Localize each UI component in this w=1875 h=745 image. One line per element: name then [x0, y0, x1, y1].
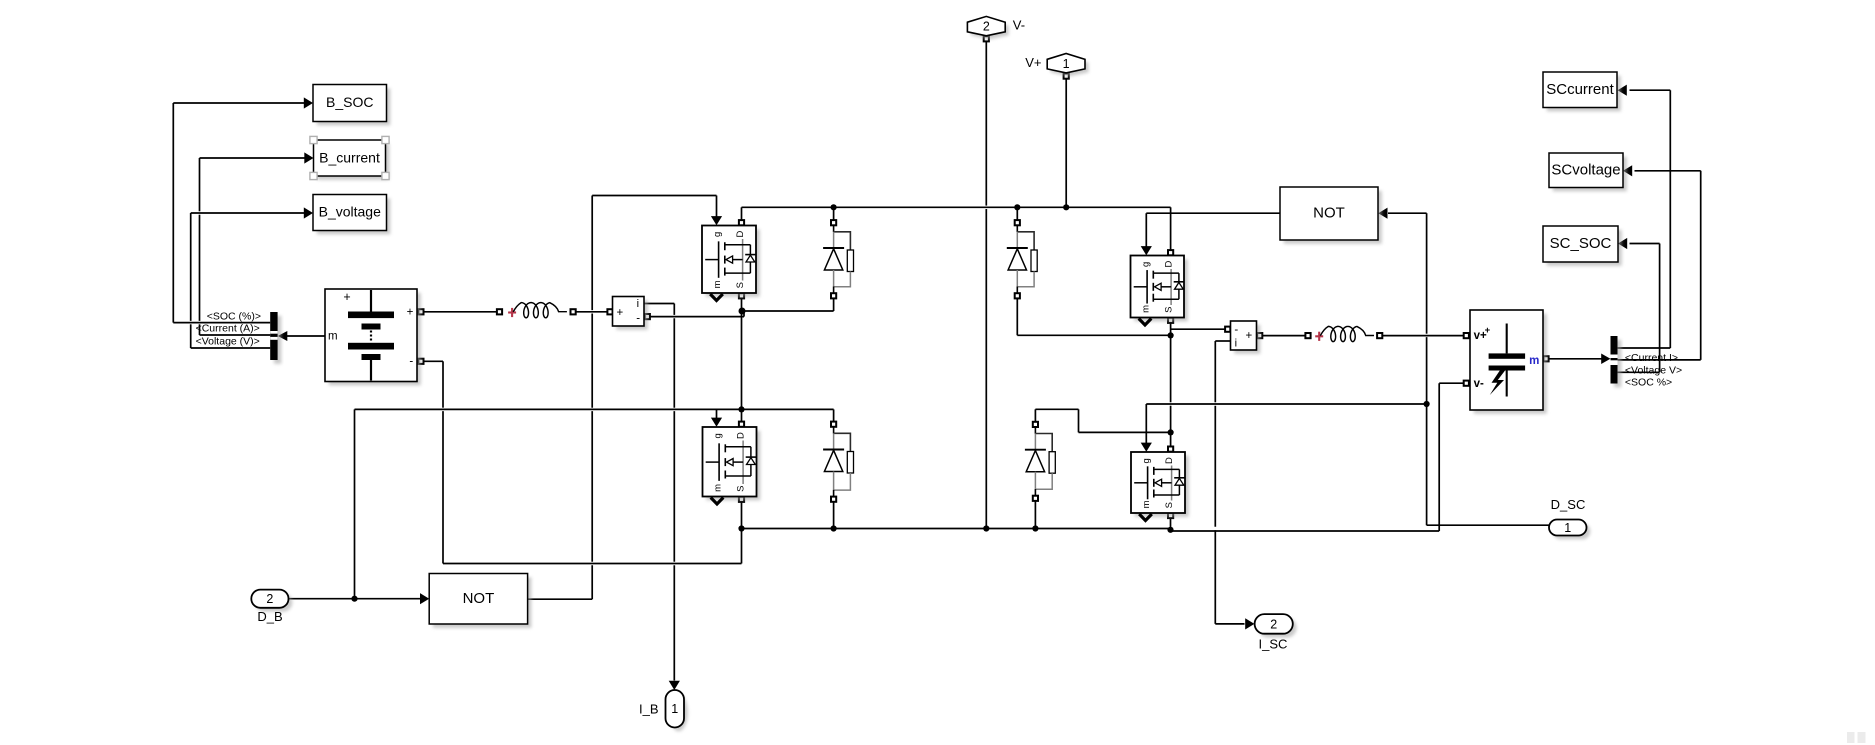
port square inductor L2 right — [1377, 333, 1382, 338]
wire D_B inport to NOT2 input — [288, 593, 429, 604]
supercapacitor block — [1470, 310, 1547, 414]
svg-text:m: m — [1529, 355, 1539, 367]
svg-text:<Voltage V>: <Voltage V> — [1625, 364, 1682, 376]
wire DC rail to diode D1 top — [833, 207, 835, 220]
junction dot diode D4 bottom rail — [1032, 525, 1038, 531]
svg-text:B_SOC: B_SOC — [326, 94, 373, 110]
wire bus selector2 port3 to SC_SOC — [1618, 238, 1660, 372]
wire inductor L2 to supercap v+ — [1382, 335, 1464, 337]
diode D4 with snubber — [1025, 427, 1055, 495]
wire MOSFET Q2 S to bottom rail — [741, 499, 743, 563]
port square sensor2 - — [1225, 327, 1230, 332]
port square diode D1 bottom — [831, 293, 836, 298]
inductor L1 with red polarity mark — [508, 303, 567, 318]
logic block NOT2 — [429, 574, 531, 628]
port square supercap m — [1543, 356, 1548, 361]
wire MOSFET Q4 S to bottom rail — [1170, 518, 1172, 531]
port square Q2 D — [739, 422, 744, 427]
port square inductor L1 right — [571, 309, 576, 314]
wire current sensor2 + to inductor L2 — [1262, 335, 1305, 337]
port square inductor L2 left — [1305, 333, 1310, 338]
svg-text:g: g — [1141, 262, 1152, 267]
junction dot Q4 S bottom rail — [1167, 527, 1173, 533]
junction dot diode D3 top on DC rail — [1014, 204, 1020, 210]
svg-text:m: m — [713, 484, 724, 492]
svg-text:S: S — [1164, 307, 1175, 313]
junction dot diode D1 top on DC rail — [831, 204, 837, 210]
svg-text:<Current (A)>: <Current (A)> — [196, 323, 260, 335]
wire B_SOC from bus selector port1 — [173, 97, 313, 322]
wire NOT2 output up to MOSFET Q1 gate — [528, 196, 722, 600]
goto block B_current (selected) — [310, 136, 389, 179]
svg-text:D_SC: D_SC — [1551, 497, 1586, 512]
svg-text:D: D — [1164, 457, 1175, 464]
svg-text:g: g — [1141, 458, 1152, 463]
diode D2 with snubber — [823, 427, 853, 496]
port square inductor L1 left — [497, 309, 502, 314]
current sensor I1 — [613, 297, 648, 330]
wire inductor L1 to current sensor + — [576, 311, 608, 313]
current sensor I2 — [1231, 321, 1261, 354]
wire diode D4 bottom to bottom rail — [1034, 501, 1036, 529]
port tag V+ shadow — [1051, 57, 1089, 76]
svg-text:g: g — [712, 232, 723, 237]
port square V- tag — [984, 36, 989, 41]
port square Q4 D — [1168, 447, 1173, 452]
port square battery + — [418, 309, 423, 314]
svg-text:2: 2 — [1270, 617, 1277, 631]
bus selector 1 — [270, 312, 281, 364]
port square supercap v+ — [1464, 333, 1469, 338]
wire supercap m output to bus selector2 — [1548, 354, 1610, 365]
svg-text:<Current I>: <Current I> — [1625, 352, 1678, 364]
MOSFET Q3 — [1131, 256, 1188, 326]
junction dot Q3 S node — [1168, 332, 1174, 338]
svg-text:S: S — [735, 282, 746, 288]
junction dot on D_B wire — [351, 596, 357, 602]
svg-text:1: 1 — [1063, 57, 1070, 71]
svg-text:<SOC (%)>: <SOC (%)> — [207, 311, 261, 323]
MOSFET Q2 — [703, 427, 761, 504]
port square supercap v- — [1464, 381, 1469, 386]
wire diode D4 top to Q4 D node — [1035, 409, 1170, 432]
wire switching node to diode D1 bottom — [742, 298, 834, 311]
svg-text:D: D — [736, 432, 747, 439]
svg-text:-: - — [1234, 324, 1238, 336]
svg-text:D: D — [735, 231, 746, 238]
port square Q1 S — [739, 293, 744, 298]
svg-text:D_B: D_B — [257, 609, 282, 624]
inport D_B — [251, 590, 292, 612]
wire diode D3 bottom to Q3 S node — [1017, 299, 1170, 336]
svg-text:S: S — [736, 486, 747, 492]
port square Q4 S — [1168, 513, 1173, 518]
svg-text:m: m — [1141, 305, 1152, 313]
port square diode D2 bottom — [831, 497, 836, 502]
wire current sensor i output to I_B outport — [644, 304, 680, 691]
port square sensor1 + — [607, 309, 612, 314]
goto block B_SOC — [313, 85, 390, 126]
svg-text:2: 2 — [983, 20, 990, 34]
svg-text:m: m — [328, 331, 338, 343]
goto block SCvoltage — [1549, 153, 1627, 191]
wire MOSFET Q1 S down through node to MOSFET Q2 D — [741, 299, 743, 422]
wire battery m output to bus selector — [278, 331, 325, 341]
outport I_B — [666, 690, 688, 731]
junction dot Q2 S bottom rail — [738, 525, 744, 531]
svg-text:<SOC %>: <SOC %> — [1625, 377, 1672, 389]
wire bus selector2 port1 to SCcurrent — [1618, 85, 1671, 348]
bus selector 2 — [1611, 336, 1622, 387]
junction dot V- bottom rail — [983, 525, 989, 531]
port tag V+ — [1047, 54, 1085, 73]
svg-text:NOT: NOT — [463, 590, 495, 607]
svg-text:m: m — [712, 280, 723, 288]
wire battery - down and to bottom rail junction — [424, 361, 742, 563]
wire V+ tag down to DC rail — [1065, 79, 1067, 208]
port square Q1 D — [739, 220, 744, 225]
svg-text:m: m — [1141, 500, 1152, 508]
MOSFET Q4 — [1131, 452, 1189, 521]
wire NOT1 output to MOSFET Q3 gate — [1141, 213, 1280, 255]
port square sensor1 - — [645, 314, 650, 319]
svg-text:i: i — [637, 298, 639, 310]
inport D_SC — [1549, 520, 1590, 540]
node junction dot below Q1 S — [739, 308, 746, 315]
wire B_current from bus selector port2 — [200, 152, 314, 335]
svg-text:V-: V- — [1013, 18, 1025, 33]
svg-text:B_voltage: B_voltage — [319, 203, 381, 219]
svg-text:1: 1 — [1564, 521, 1571, 535]
svg-text:-: - — [636, 313, 640, 325]
svg-text:SCvoltage: SCvoltage — [1551, 161, 1620, 178]
svg-text:+: + — [1246, 330, 1253, 342]
port square V+ tag — [1064, 74, 1069, 79]
svg-text:v-: v- — [1474, 378, 1484, 390]
outport I_SC — [1255, 614, 1297, 637]
port square diode D2 top — [831, 422, 836, 427]
junction dot diode D2 bottom rail — [831, 525, 837, 531]
port tag V- — [967, 16, 1005, 35]
svg-text:I_B: I_B — [639, 702, 659, 717]
inductor L2 with red polarity mark — [1315, 326, 1374, 341]
goto block B_voltage — [313, 195, 390, 235]
battery block — [325, 289, 421, 385]
svg-text:D: D — [1164, 261, 1175, 268]
wire current sensor - to switching node junction — [650, 311, 744, 317]
port square diode D4 top — [1033, 422, 1038, 427]
wire gate net to NOT1 input, MOSFET Q4 gate and D_SC — [1141, 208, 1549, 526]
goto block SC_SOC — [1543, 226, 1622, 266]
svg-text:SC_SOC: SC_SOC — [1550, 235, 1612, 252]
svg-text:B_current: B_current — [319, 149, 380, 165]
junction dot V+ on DC rail — [1063, 204, 1069, 210]
diode D3 with snubber — [1007, 226, 1037, 294]
wire current sensor2 i output to I_SC outport — [1215, 341, 1254, 630]
svg-text:SCcurrent: SCcurrent — [1546, 81, 1614, 98]
junction dot gate net — [1424, 401, 1430, 407]
svg-text:g: g — [713, 433, 724, 438]
node junction dot on gate rail at Q2 D — [738, 406, 744, 412]
port tag V- shadow — [971, 20, 1009, 39]
port square diode D3 bottom — [1015, 293, 1020, 298]
wire diode D2 bottom to bottom rail — [833, 499, 835, 528]
svg-text:S: S — [1164, 502, 1175, 508]
svg-text:I_SC: I_SC — [1259, 637, 1288, 652]
wire D_B gate rail to MOSFET Q2 gate and diode D2 top — [355, 409, 834, 598]
port square diode D4 bottom — [1033, 496, 1038, 501]
goto block SCcurrent — [1543, 72, 1621, 111]
svg-text:2: 2 — [266, 592, 273, 606]
wire V- tag down to bottom rail — [985, 42, 987, 206]
svg-text:V+: V+ — [1025, 55, 1041, 70]
svg-text:-: - — [409, 356, 413, 368]
faint watermark — [1847, 732, 1866, 743]
MOSFET Q1 — [702, 226, 760, 301]
wire B_voltage from bus selector port3 — [191, 207, 313, 348]
wire DC rail to diode D3 top — [1016, 207, 1018, 220]
wire battery + to inductor L1 — [424, 311, 497, 313]
svg-text:+: + — [343, 290, 350, 304]
port square diode D1 top — [831, 220, 836, 225]
svg-text:+: + — [407, 307, 414, 319]
port square Q3 S — [1168, 318, 1173, 323]
bottom DC rail — [742, 383, 1465, 531]
svg-text:1: 1 — [671, 702, 678, 716]
port square diode D3 top — [1015, 220, 1020, 225]
wire Q3 S node to current sensor2 - — [1171, 328, 1225, 330]
wire MOSFET Q3 S down to MOSFET Q4 D — [1170, 323, 1172, 402]
diode D1 with snubber — [823, 226, 853, 294]
svg-text:i: i — [1235, 338, 1237, 350]
port square Q3 D — [1168, 250, 1173, 255]
wire bus selector2 port2 to SCvoltage — [1618, 165, 1701, 360]
svg-text:+: + — [1485, 325, 1491, 336]
port square sensor2 + — [1257, 333, 1262, 338]
svg-text:NOT: NOT — [1313, 205, 1345, 222]
wire top DC rail from Q1 D to Q3 D — [742, 207, 1171, 250]
logic block NOT1 — [1280, 187, 1382, 244]
port square Q2 S — [739, 497, 744, 502]
junction dot Q4 D node — [1168, 429, 1174, 435]
svg-text:+: + — [617, 307, 624, 319]
port square battery - — [418, 359, 423, 364]
svg-text:<Voltage (V)>: <Voltage (V)> — [196, 336, 260, 348]
